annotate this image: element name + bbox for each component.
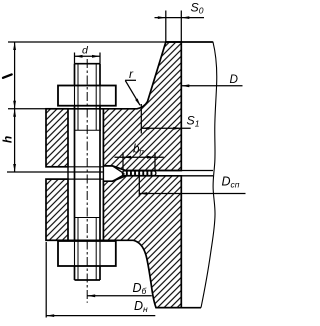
- arrow d right: [92, 55, 100, 58]
- lower flange raised face edge right of hole: [103, 180, 112, 182]
- upper sealing face line to break: [126, 170, 213, 172]
- thread runout line upper: [75, 129, 102, 131]
- h extension line mid joint: [7, 171, 103, 173]
- chamfer lower face to gasket: [113, 175, 125, 182]
- arrow bn left: [123, 156, 131, 159]
- arrow bn right: [147, 156, 155, 159]
- nut upper: [58, 86, 116, 106]
- arrow Dcp: [139, 192, 147, 195]
- arrow Dn: [46, 314, 54, 317]
- dimension S1: [140, 104, 142, 134]
- arrow Db: [87, 294, 95, 297]
- arrow D: [181, 84, 189, 87]
- upper flange left block: [46, 109, 68, 167]
- dimension d: [75, 53, 101, 64]
- nut lower: [58, 241, 116, 266]
- dimension S0: [155, 11, 205, 43]
- arrow r leader: [135, 99, 140, 107]
- bolt hole edge through joint gap left: [67, 167, 69, 179]
- dimension D: [181, 85, 242, 87]
- arrow S1 right: [173, 127, 181, 130]
- arrow d left: [75, 55, 83, 58]
- arrow S1 left: [141, 127, 149, 130]
- flange top face extension (for l and h): [8, 108, 46, 110]
- dimension l: [14, 42, 16, 109]
- arrow h bottom: [13, 164, 16, 172]
- stud: [75, 64, 101, 280]
- flange top face across hole: [68, 108, 103, 110]
- stud thread thin lines top: [78, 64, 96, 280]
- upper flange raised face edge right of hole: [103, 165, 112, 167]
- arrow S0 right: [181, 16, 189, 19]
- bolt centerline: [86, 59, 88, 303]
- lower flange top face line across hole: [46, 178, 103, 180]
- thread runout line lower: [75, 217, 101, 219]
- upper flange body with hub and shell wall: [103, 42, 181, 171]
- dimension Db: [87, 295, 152, 297]
- dimension Dcp: [138, 177, 140, 197]
- bolt hole edge through joint gap right: [102, 166, 104, 181]
- svg-text:h: h: [1, 136, 15, 143]
- arrow S0 left: [158, 16, 166, 19]
- bottom shell cut edge: [156, 307, 201, 309]
- lower flange bottom face across hole: [68, 239, 103, 241]
- gasket circles: [122, 171, 156, 176]
- arrow l top: [13, 42, 16, 50]
- dimension bn: [115, 153, 164, 171]
- arrow h top: [13, 109, 16, 117]
- dimension h: [14, 109, 16, 172]
- label l: [3, 74, 12, 77]
- svg-text:D: D: [230, 73, 239, 86]
- chamfer upper face to gasket: [113, 166, 125, 174]
- extension line top (for l): [8, 41, 166, 43]
- lower flange body with bottom hub: [103, 176, 181, 308]
- arrow l bottom: [13, 101, 16, 109]
- dimension Dn: [45, 242, 47, 318]
- lower flange left block: [46, 179, 68, 240]
- top shell cut edge: [166, 41, 213, 43]
- upper flange bottom face line across hole: [46, 166, 103, 168]
- lower sealing face line to break: [126, 175, 213, 177]
- wavy break line: [201, 42, 217, 308]
